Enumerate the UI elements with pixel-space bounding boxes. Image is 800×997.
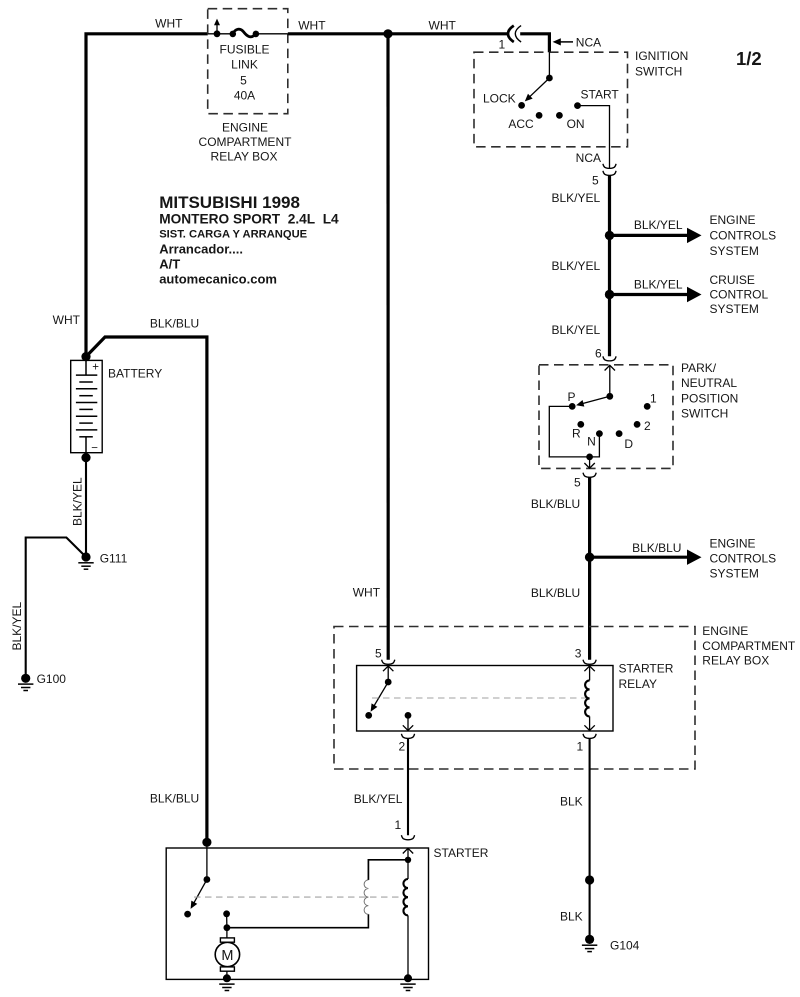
branch arrow up from fusible feed	[214, 19, 220, 34]
svg-text:STARTER: STARTER	[619, 662, 674, 676]
svg-text:CONTROL: CONTROL	[710, 288, 769, 302]
label BLK/YEL (engine controls branch)	[634, 218, 683, 232]
label BLK/YEL segment 3	[551, 323, 600, 337]
label WHT (relay feed)	[353, 585, 381, 599]
label 3 (relay pin)	[575, 647, 582, 661]
contact N	[596, 430, 603, 437]
label PARK/NEUTRAL POSITION SWITCH	[681, 361, 738, 420]
starter solenoid contact	[223, 910, 230, 917]
label CRUISE CONTROL SYSTEM	[710, 273, 769, 316]
contact P	[569, 403, 576, 410]
svg-text:40A: 40A	[234, 89, 255, 103]
label BLK/YEL (cruise branch)	[634, 277, 683, 291]
node hold-in coil junction	[405, 857, 411, 863]
connector cup relay pin 5	[382, 660, 395, 665]
wire WHT feed to starter relay pin 5	[386, 34, 389, 660]
wire START contact to ignition output	[578, 106, 610, 169]
svg-text:D: D	[624, 437, 633, 451]
label NCA (ignition feed)	[576, 36, 601, 50]
label ENGINE CONTROLS SYSTEM (upper)	[710, 213, 777, 258]
svg-text:A/T: A/T	[159, 257, 180, 272]
svg-text:M: M	[221, 948, 233, 964]
label FUSIBLE	[219, 42, 269, 56]
wire BLK/BLU park-neutral to starter relay	[588, 477, 591, 659]
label LINK	[231, 58, 258, 72]
svg-text:SIST. CARGA Y ARRANQUE: SIST. CARGA Y ARRANQUE	[159, 229, 307, 241]
starter relay coil	[585, 680, 590, 716]
label 5 (relay pin)	[375, 647, 382, 661]
svg-text:ON: ON	[567, 117, 585, 131]
title automecanico.com	[159, 272, 277, 287]
label BLK/YEL (G100 wire, rotated)	[10, 601, 24, 650]
engine compartment relay box (fusible link) dashed outline	[208, 9, 288, 114]
node park-neutral common	[606, 393, 613, 400]
starter relay switch arm	[368, 682, 389, 713]
wire fusible link to connector C1 (WHT)	[288, 32, 508, 35]
wire ignition switch common feed	[548, 52, 550, 78]
contact START	[574, 102, 581, 109]
svg-text:MONTERO SPORT 2.4L L4: MONTERO SPORT 2.4L L4	[159, 212, 339, 227]
svg-text:R: R	[572, 426, 581, 440]
svg-text:RELAY BOX: RELAY BOX	[211, 150, 278, 164]
svg-text:−: −	[91, 442, 98, 454]
starter switch feed inside box	[206, 842, 208, 879]
node starter motor ground	[223, 974, 231, 982]
svg-text:BLK: BLK	[560, 909, 583, 923]
wire BLK/YEL relay pin 2 to starter pin 1	[407, 739, 409, 836]
label STARTER RELAY	[619, 662, 674, 692]
ignition switch dashed box	[474, 52, 628, 147]
svg-text:BLK/YEL: BLK/YEL	[71, 477, 85, 526]
park-neutral wiper arm to P	[575, 396, 610, 408]
svg-text:WHT: WHT	[155, 16, 183, 30]
node ground G111 terminal	[81, 552, 90, 561]
label R	[572, 426, 581, 440]
svg-text:MITSUBISHI 1998: MITSUBISHI 1998	[159, 193, 300, 212]
svg-text:BLK/YEL: BLK/YEL	[551, 259, 600, 273]
starter pull-in coil	[364, 880, 368, 914]
title MITSUBISHI 1998	[159, 193, 300, 212]
svg-text:automecanico.com: automecanico.com	[159, 272, 277, 287]
starter switch arm	[188, 880, 207, 911]
label BLK/YEL segment 1	[551, 191, 600, 205]
svg-text:5: 5	[574, 475, 581, 489]
node starter motor junction	[224, 924, 231, 931]
wire inside fusible box right segment	[256, 33, 288, 35]
starter relay pin 3 entry arrow	[584, 666, 594, 680]
svg-text:G111: G111	[100, 551, 128, 565]
svg-text:POSITION: POSITION	[681, 391, 738, 405]
svg-text:SYSTEM: SYSTEM	[710, 567, 759, 581]
svg-text:SYSTEM: SYSTEM	[710, 244, 759, 258]
label 6 (pin)	[595, 347, 602, 361]
contact D	[616, 430, 623, 437]
svg-text:2: 2	[644, 419, 651, 433]
label 1 (contact)	[650, 391, 657, 405]
label START	[581, 88, 620, 102]
park-neutral exit arrow pin 5	[584, 457, 594, 468]
contact 1	[644, 403, 651, 410]
relay coil link dashed line	[372, 697, 587, 699]
battery outline	[71, 360, 103, 452]
label N	[587, 434, 596, 448]
svg-text:Arrancador....: Arrancador....	[159, 242, 243, 257]
relay contact pin 2	[405, 712, 412, 719]
engine compartment relay box dashed outline	[334, 627, 695, 770]
label 2 (relay pin)	[399, 740, 406, 754]
wire connector to ignition switch (WHT)	[520, 34, 549, 52]
starter pin 1 entry arrow	[403, 848, 413, 879]
wire motor node to pull-in coil	[227, 914, 369, 927]
svg-text:LINK: LINK	[231, 58, 258, 72]
contact 2	[634, 421, 641, 428]
starter motor M	[215, 942, 239, 966]
node branch to engine controls	[605, 231, 614, 240]
label 2 (contact)	[644, 419, 651, 433]
starter relay pin 5 entry arrow	[383, 666, 393, 682]
node battery negative terminal	[81, 453, 90, 462]
wire battery positive to fusible link (WHT)	[86, 34, 208, 357]
wire motor to ground	[226, 971, 228, 978]
node starter switch common	[204, 876, 211, 883]
label + (battery)	[92, 361, 99, 373]
label D	[624, 437, 633, 451]
label WHT mid segment	[298, 18, 326, 32]
svg-text:N: N	[587, 434, 596, 448]
svg-text:BLK/YEL: BLK/YEL	[551, 191, 600, 205]
svg-text:LOCK: LOCK	[483, 91, 516, 105]
label BLK/YEL segment 2	[551, 259, 600, 273]
svg-text:WHT: WHT	[298, 18, 326, 32]
wire inside fusible box left segment	[208, 33, 233, 35]
inline connector 1 (thin half)	[515, 26, 521, 42]
label BLK/YEL (starter solenoid feed)	[354, 792, 403, 806]
svg-text:1: 1	[577, 740, 584, 754]
arrow to engine controls system (BLK/BLU)	[590, 550, 702, 565]
label BLK/BLU (battery branch)	[150, 317, 199, 331]
label BLK/BLU (starter feed)	[150, 792, 199, 806]
contact LOCK	[518, 102, 525, 109]
svg-text:1: 1	[650, 391, 657, 405]
svg-text:COMPARTMENT: COMPARTMENT	[702, 639, 796, 653]
svg-text:START: START	[581, 88, 620, 102]
contact ON	[556, 112, 563, 119]
svg-text:WHT: WHT	[353, 585, 381, 599]
starter outline box	[166, 848, 428, 979]
label BLK segment 1	[560, 794, 583, 808]
svg-text:RELAY BOX: RELAY BOX	[702, 654, 769, 668]
svg-text:SWITCH: SWITCH	[681, 406, 728, 420]
inline connector 5 lower cup	[603, 171, 616, 176]
svg-text:1: 1	[395, 818, 402, 832]
starter switch link dashed line	[194, 896, 403, 898]
svg-text:PARK/: PARK/	[681, 361, 717, 375]
svg-text:NCA: NCA	[576, 151, 601, 165]
node relay switch common	[385, 679, 392, 686]
svg-text:BLK/BLU: BLK/BLU	[531, 497, 580, 511]
svg-text:SYSTEM: SYSTEM	[710, 302, 759, 316]
label P	[567, 390, 575, 404]
svg-text:ENGINE: ENGINE	[222, 121, 268, 135]
motor brush upper	[220, 938, 234, 942]
svg-text:BLK/YEL: BLK/YEL	[551, 323, 600, 337]
label BLK segment 2	[560, 909, 583, 923]
label ACC	[508, 117, 534, 131]
wire P to N inside park-neutral switch	[549, 406, 599, 457]
node junction to starter relay feed	[383, 29, 392, 38]
node battery positive terminal	[81, 352, 90, 361]
svg-text:COMPARTMENT: COMPARTMENT	[199, 135, 293, 149]
connector cup pin 5 park-neutral exit	[583, 473, 596, 478]
node branch to engine controls (BLK/BLU)	[585, 553, 594, 562]
svg-text:SWITCH: SWITCH	[635, 65, 682, 79]
svg-text:BLK/YEL: BLK/YEL	[10, 601, 24, 650]
svg-text:5: 5	[375, 647, 382, 661]
svg-text:BATTERY: BATTERY	[108, 366, 162, 380]
label - (battery)	[91, 442, 98, 454]
battery positive stub	[85, 357, 87, 376]
svg-text:CONTROLS: CONTROLS	[710, 229, 777, 243]
wire solenoid contact to motor node	[226, 914, 228, 928]
svg-text:ENGINE: ENGINE	[710, 537, 756, 551]
wire motor node to motor	[226, 928, 228, 938]
relay pin 2 exit arrow	[403, 715, 413, 730]
node BLK splice	[585, 875, 594, 884]
fusible link element FL5 (squiggle with end dots)	[230, 29, 260, 37]
svg-text:G100: G100	[37, 672, 67, 686]
arrow NCA into ignition feed	[553, 38, 573, 45]
svg-text:WHT: WHT	[429, 18, 457, 32]
svg-text:1: 1	[499, 38, 506, 52]
label G111	[100, 551, 128, 565]
node starter coil ground	[404, 974, 412, 982]
starter hold-in coil	[403, 879, 408, 915]
arrow to engine controls system (BLK/YEL)	[610, 228, 702, 243]
svg-text:CRUISE: CRUISE	[710, 273, 755, 287]
label BLK/BLU (engine controls branch)	[632, 541, 681, 555]
svg-text:5: 5	[240, 73, 247, 87]
ignition switch wiper arm to LOCK	[522, 78, 549, 104]
label WHT (battery feed)	[53, 313, 81, 327]
label G104	[610, 939, 640, 953]
park/neutral position switch dashed box	[539, 365, 673, 469]
svg-text:P: P	[567, 390, 575, 404]
svg-text:G104: G104	[610, 939, 640, 953]
wire hold-in coil to starter ground	[407, 915, 409, 978]
label BATTERY	[108, 366, 162, 380]
svg-text:FUSIBLE: FUSIBLE	[219, 42, 269, 56]
label WHT right segment	[429, 18, 457, 32]
label WHT top-left segment	[155, 16, 183, 30]
ground G104 symbol	[582, 945, 597, 951]
label 1 (starter pin)	[395, 818, 402, 832]
label BLK/BLU segment 2	[531, 586, 580, 600]
connector cup relay pin 3	[583, 660, 596, 665]
node ground G104 terminal	[585, 935, 594, 944]
inline connector 5 upper cup	[603, 164, 616, 169]
wire BLK/YEL ignition to park-neutral switch	[608, 176, 611, 357]
wire battery negative to G111 (BLK/YEL)	[85, 458, 87, 557]
label 1 (connector pin)	[499, 38, 506, 52]
svg-text:IGNITION: IGNITION	[635, 49, 688, 63]
label ENGINE COMPARTMENT RELAY BOX (fusible link)	[199, 121, 293, 164]
svg-text:ENGINE: ENGINE	[702, 624, 748, 638]
relay coil to pin 1 exit arrow	[584, 716, 594, 730]
label G100	[37, 672, 67, 686]
connector cup relay pin 1	[583, 734, 596, 739]
label 5 (pin, park-neutral exit)	[574, 475, 581, 489]
label ON	[567, 117, 585, 131]
park-neutral entry arrow pin 6	[605, 365, 615, 396]
title MONTERO SPORT 2.4L L4	[159, 212, 339, 227]
title SIST. CARGA Y ARRANQUE	[159, 229, 307, 241]
label BLK/YEL (battery ground wire, rotated)	[71, 477, 85, 526]
wire G111 to G100 (BLK/YEL)	[26, 538, 86, 675]
svg-text:CONTROLS: CONTROLS	[710, 552, 777, 566]
svg-text:3: 3	[575, 647, 582, 661]
inline connector 1 (thick half)	[508, 26, 514, 42]
svg-text:+: +	[92, 361, 99, 373]
contact R	[577, 421, 584, 428]
title Arrancador....	[159, 242, 243, 257]
svg-text:STARTER: STARTER	[434, 846, 489, 860]
junction dot fusible feed branch	[214, 30, 221, 37]
svg-text:BLK/BLU: BLK/BLU	[531, 586, 580, 600]
svg-text:5: 5	[592, 173, 599, 187]
label 5 (fusible link number)	[240, 73, 247, 87]
label 40A rating	[234, 89, 255, 103]
svg-text:BLK/BLU: BLK/BLU	[150, 317, 199, 331]
starter switch contact	[184, 911, 191, 918]
label LOCK	[483, 91, 516, 105]
svg-text:ENGINE: ENGINE	[710, 213, 756, 227]
label STARTER	[434, 846, 489, 860]
label ENGINE COMPARTMENT RELAY BOX	[702, 624, 796, 668]
node park-neutral output junction	[586, 454, 593, 461]
svg-text:RELAY: RELAY	[619, 677, 657, 691]
arrow to cruise control system (BLK/YEL)	[610, 287, 702, 302]
label IGNITION SWITCH	[635, 49, 688, 79]
connector cup pin 6 park-neutral	[603, 356, 616, 361]
wire pull-in coil to hold-in junction	[368, 860, 408, 880]
node ground G100 terminal	[21, 674, 30, 683]
svg-text:BLK/YEL: BLK/YEL	[634, 218, 683, 232]
node branch to cruise control	[605, 290, 614, 299]
relay contact (pin 2 side throw)	[365, 712, 372, 719]
svg-text:NEUTRAL: NEUTRAL	[681, 376, 737, 390]
label 1 (relay pin)	[577, 740, 584, 754]
node ignition common	[546, 75, 553, 82]
ground symbol (starter motor)	[219, 984, 234, 990]
svg-text:ACC: ACC	[508, 117, 534, 131]
wire BLK/BLU battery to starter switch	[86, 337, 207, 842]
svg-text:NCA: NCA	[576, 36, 601, 50]
svg-text:BLK: BLK	[560, 794, 583, 808]
label 5 (connector pin)	[592, 173, 599, 187]
svg-text:1/2: 1/2	[736, 48, 762, 69]
connector cup relay pin 2	[401, 734, 414, 739]
ground symbol (starter coil)	[400, 984, 415, 990]
label ENGINE CONTROLS SYSTEM (lower)	[710, 537, 777, 581]
battery plates	[76, 375, 97, 437]
battery negative stub	[85, 437, 87, 458]
svg-text:WHT: WHT	[53, 313, 81, 327]
label 1/2 page number	[736, 48, 762, 69]
connector cup starter pin 1	[401, 835, 414, 840]
node starter feed junction at starter box	[202, 838, 211, 847]
svg-text:BLK/YEL: BLK/YEL	[354, 792, 403, 806]
title A/T	[159, 257, 180, 272]
ground G100 symbol	[18, 684, 33, 690]
label BLK/BLU segment 1	[531, 497, 580, 511]
svg-text:BLK/YEL: BLK/YEL	[634, 277, 683, 291]
svg-text:BLK/BLU: BLK/BLU	[632, 541, 681, 555]
svg-text:BLK/BLU: BLK/BLU	[150, 792, 199, 806]
ground G111 symbol	[78, 563, 93, 569]
starter relay outline box	[357, 666, 613, 732]
svg-text:2: 2	[399, 740, 406, 754]
motor brush lower	[220, 967, 234, 971]
svg-text:6: 6	[595, 347, 602, 361]
contact ACC	[536, 112, 543, 119]
wire BLK relay pin 1 to ground G104	[589, 739, 591, 940]
label NCA (ignition output)	[576, 151, 601, 165]
